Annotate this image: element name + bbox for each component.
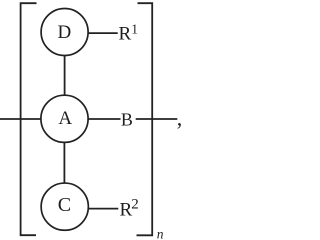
svg-text:A: A [58,108,72,129]
node A circle [41,95,88,142]
svg-text:B: B [121,110,133,130]
wire: D to A connector [64,56,66,96]
node C circle [41,183,88,230]
svg-text:,: , [177,105,183,130]
wire: A to B [88,118,120,120]
left bracket [21,3,37,235]
wire: B to right, through bracket [136,118,178,120]
svg-text:R: R [119,24,132,45]
svg-text:2: 2 [131,196,139,212]
svg-text:1: 1 [131,21,138,36]
svg-text:n: n [157,227,164,240]
right bracket [137,3,153,235]
svg-text:D: D [58,22,72,43]
wire: main horizontal left segment [0,118,41,120]
wire: A to C connector [63,142,65,183]
wire: D to R1 [88,32,118,34]
wire: C to R2 [88,208,118,210]
node D circle [41,9,88,56]
svg-text:C: C [58,194,71,216]
